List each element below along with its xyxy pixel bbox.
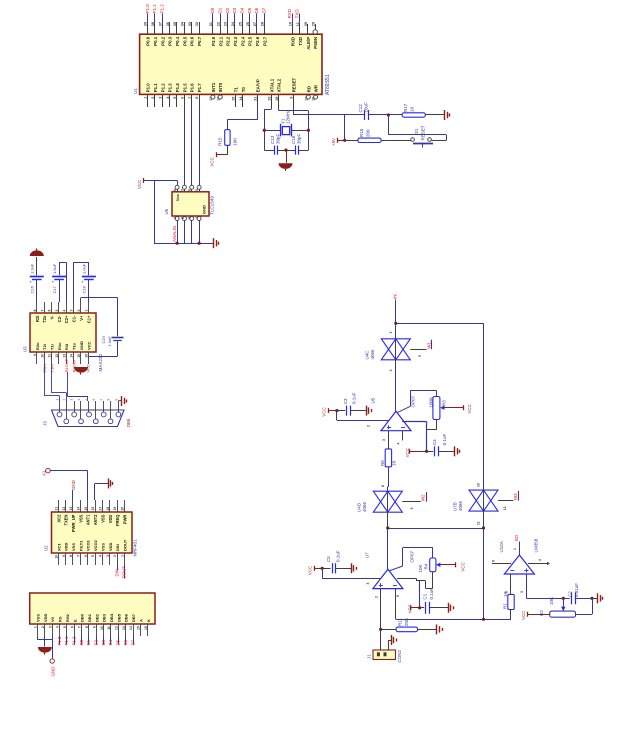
svg-text:P2.0: P2.0 [211,36,216,46]
svg-text:10: 10 [54,555,58,559]
svg-text:INT1: INT1 [211,82,216,92]
svg-text:R4: R4 [424,563,429,569]
svg-text:10uF: 10uF [364,102,369,113]
svg-text:30pF: 30pF [297,133,302,144]
svg-text:1.0uF: 1.0uF [52,263,57,274]
svg-text:6: 6 [92,399,96,401]
svg-text:P1.3: P1.3 [168,83,173,92]
svg-text:P0.2: P0.2 [160,36,165,46]
svg-text:P1.1: P1.1 [64,636,69,645]
svg-text:BO: BO [514,534,519,541]
svg-text:IN: IN [392,294,397,299]
svg-text:12: 12 [114,626,118,630]
svg-text:D3: D3 [101,639,106,645]
svg-text:6: 6 [70,626,74,628]
svg-text:D2: D2 [225,7,230,13]
svg-text:13: 13 [62,354,66,358]
svg-text:29: 29 [311,22,315,26]
svg-text:R11: R11 [398,618,403,626]
svg-text:TXEN: TXEN [64,515,69,526]
svg-text:R2: R2 [539,610,544,616]
svg-text:6: 6 [188,189,192,191]
svg-text:8: 8 [381,485,385,487]
svg-text:10K: 10K [549,597,554,605]
svg-text:K: K [146,619,151,622]
svg-text:4: 4 [397,443,401,445]
svg-text:15: 15 [137,626,141,630]
svg-text:4: 4 [77,399,81,401]
svg-text:RXD: RXD [287,8,292,18]
svg-text:XC2: XC2 [56,514,61,523]
svg-text:VDD: VDD [108,515,113,524]
svg-text:1K: 1K [410,106,415,112]
svg-text:20: 20 [121,507,125,511]
svg-text:VDD: VDD [108,542,113,551]
svg-text:C1: C1 [423,593,428,599]
svg-text:FREQ: FREQ [115,514,120,526]
svg-text:10: 10 [40,354,44,358]
svg-text:VCC: VCC [86,341,91,350]
svg-text:VDD: VDD [43,613,48,622]
svg-text:P1.2: P1.2 [71,636,76,645]
svg-text:VCC: VCC [408,604,413,613]
svg-text:RESET: RESET [421,125,426,140]
svg-text:10K: 10K [232,138,237,146]
svg-text:+: + [52,280,55,285]
svg-text:J3: J3 [43,421,48,426]
svg-text:J1: J1 [367,654,372,659]
svg-text:P1.1: P1.1 [152,4,157,14]
svg-text:E: E [72,619,77,622]
svg-text:D1: D1 [217,7,222,13]
svg-text:TLC1549: TLC1549 [210,196,215,215]
svg-text:ALE/P: ALE/P [306,37,311,50]
svg-text:C12: C12 [358,104,363,113]
svg-text:U6: U6 [164,208,169,214]
svg-text:P2.6: P2.6 [255,36,260,46]
svg-text:D0: D0 [79,639,84,645]
svg-text:T1: T1 [234,87,239,93]
svg-text:VCC: VCC [321,407,326,416]
svg-text:12: 12 [503,506,507,510]
svg-text:DIN: DIN [114,569,119,577]
svg-text:D6: D6 [254,7,259,13]
svg-text:R1: R1 [503,603,508,609]
svg-text:DB7: DB7 [131,613,136,622]
svg-text:3: 3 [389,332,393,334]
svg-text:0.01uF: 0.01uF [574,583,579,597]
svg-text:12MHz: 12MHz [286,109,291,124]
svg-text:DOUT: DOUT [122,539,127,551]
svg-text:DB6: DB6 [124,613,129,622]
svg-text:CON2: CON2 [397,650,402,663]
svg-text:P2.5: P2.5 [248,36,253,46]
svg-text:1: 1 [121,555,125,557]
svg-text:DB2: DB2 [94,613,99,622]
svg-text:VSS: VSS [78,514,83,522]
svg-text:5: 5 [91,555,95,557]
svg-text:VCO1: VCO1 [86,539,91,551]
svg-text:19: 19 [268,97,272,101]
svg-text:OP07: OP07 [411,395,416,407]
svg-text:T2o: T2o [42,315,47,323]
svg-text:U7B: U7B [453,502,458,511]
svg-text:D4: D4 [240,7,245,13]
svg-text:PSEN: PSEN [313,37,318,49]
svg-text:V+: V+ [79,315,84,321]
svg-text:3: 3 [188,217,192,219]
svg-text:S1: S1 [414,128,419,134]
svg-text:4: 4 [195,217,199,219]
svg-text:6: 6 [48,310,52,312]
svg-text:W1: W1 [426,342,431,349]
svg-text:VCC: VCC [467,404,472,413]
svg-text:VCC: VCC [405,448,410,457]
svg-text:P1.5: P1.5 [182,83,187,92]
svg-text:+: + [81,280,84,285]
svg-text:0.1uF: 0.1uF [336,550,341,562]
svg-text:DB1: DB1 [87,613,92,622]
svg-text:D2: D2 [94,639,99,645]
svg-text:RS: RS [58,616,63,622]
svg-text:GND: GND [50,667,55,677]
svg-text:W2: W2 [421,494,426,501]
svg-text:ANT2: ANT2 [93,514,98,525]
svg-text:C17: C17 [52,285,57,293]
svg-text:1: 1 [173,217,177,219]
svg-text:6: 6 [180,97,184,99]
svg-text:5: 5 [85,399,89,401]
svg-text:R16: R16 [359,128,364,137]
svg-text:AT89S51: AT89S51 [325,74,331,95]
svg-text:EA/VP: EA/VP [256,79,261,92]
svg-text:U1: U1 [133,88,138,94]
svg-text:VCC: VCC [210,157,215,166]
svg-text:T1o: T1o [72,342,77,350]
svg-text:8: 8 [195,97,199,99]
svg-text:4066: 4066 [362,501,367,512]
svg-text:1: 1 [84,310,88,312]
svg-text:4066: 4066 [458,500,463,511]
svg-text:RXD: RXD [291,37,296,46]
svg-text:D7: D7 [262,7,267,13]
svg-text:16: 16 [91,507,95,511]
svg-text:1: 1 [513,548,517,550]
svg-text:+5V: +5V [331,138,336,146]
svg-text:8: 8 [173,189,177,191]
svg-text:8: 8 [492,560,496,562]
svg-text:0.1uF: 0.1uF [442,433,447,445]
svg-text:U2: U2 [44,545,49,551]
svg-text:3: 3 [366,583,370,585]
svg-text:GND: GND [71,480,76,490]
svg-text:VCC: VCC [86,364,91,373]
svg-text:Vcc: Vcc [175,193,180,201]
svg-text:28: 28 [260,22,264,26]
svg-text:PWR: PWR [122,515,127,525]
svg-text:VSS: VSS [36,614,41,622]
svg-text:4: 4 [538,559,542,561]
svg-text:TXD: TXD [295,9,300,19]
svg-text:1K: 1K [392,460,397,466]
svg-text:DOUT: DOUT [122,566,127,579]
svg-text:2: 2 [62,399,66,401]
svg-text:P1.0: P1.0 [145,4,150,14]
svg-text:GND: GND [202,205,207,214]
svg-text:VCC: VCC [461,562,466,571]
svg-text:3: 3 [520,591,524,593]
svg-text:10K: 10K [418,564,423,572]
svg-text:RD: RD [306,86,311,92]
svg-text:5: 5 [195,189,199,191]
svg-text:U4D: U4D [357,502,362,512]
svg-text:C13: C13 [270,135,275,144]
svg-text:C1-: C1- [72,315,77,322]
svg-text:+: + [29,280,32,285]
svg-text:R1i: R1i [64,344,69,350]
svg-text:R2i: R2i [35,316,40,322]
svg-text:P2.4: P2.4 [240,36,245,46]
svg-text:C18: C18 [82,285,87,293]
svg-text:4066: 4066 [370,349,375,360]
svg-text:T1i: T1i [50,344,55,350]
svg-text:LM358: LM358 [534,538,539,552]
svg-text:R17: R17 [403,103,408,112]
svg-text:3: 3 [382,439,386,441]
svg-text:VCC: VCC [307,566,312,575]
svg-text:6: 6 [396,595,400,597]
svg-text:11: 11 [48,354,52,358]
svg-text:8: 8 [107,399,111,401]
svg-text:D5: D5 [247,7,252,13]
svg-text:9: 9 [92,626,96,628]
svg-text:5: 5 [418,355,422,357]
svg-text:3: 3 [158,97,162,99]
svg-text:D0: D0 [210,7,215,13]
svg-text:P1.4: P1.4 [175,83,180,92]
svg-text:2: 2 [180,217,184,219]
svg-text:W3: W3 [513,493,518,500]
svg-text:10: 10 [477,483,481,487]
svg-text:C2+: C2+ [64,315,69,323]
svg-text:OP07: OP07 [410,550,415,562]
svg-text:A: A [138,619,143,622]
svg-text:4: 4 [389,369,393,371]
svg-text:1: 1 [34,626,38,628]
svg-text:17: 17 [99,507,103,511]
svg-text:1.0uF: 1.0uF [82,263,87,274]
svg-text:D5: D5 [116,639,121,645]
svg-text:0.1uF: 0.1uF [352,392,357,404]
svg-text:P0.0: P0.0 [146,36,151,46]
svg-text:C16: C16 [30,285,35,293]
svg-text:V0: V0 [50,616,55,622]
svg-text:37: 37 [158,22,162,26]
svg-text:14: 14 [129,626,133,630]
svg-text:XC1: XC1 [56,542,61,551]
svg-text:P2.2: P2.2 [226,36,231,46]
svg-text:U4C: U4C [365,350,370,360]
svg-text:C3: C3 [343,398,348,404]
svg-text:ANALIN: ANALIN [172,226,177,242]
svg-text:U3: U3 [23,346,28,352]
svg-text:VCC: VCC [521,611,526,620]
svg-text:P1.0: P1.0 [57,636,62,645]
svg-text:7: 7 [76,555,80,557]
svg-text:3: 3 [48,626,52,628]
svg-text:C2-: C2- [57,315,62,322]
svg-text:C19: C19 [101,335,106,343]
svg-text:4: 4 [99,555,103,557]
svg-text:2: 2 [367,425,371,427]
svg-text:DB4: DB4 [109,613,114,622]
svg-text:DB9: DB9 [126,418,131,427]
svg-text:Y1: Y1 [280,118,285,124]
svg-text:R15: R15 [218,137,223,146]
svg-text:P0.5: P0.5 [182,36,187,46]
svg-text:T2i: T2i [42,344,47,350]
svg-text:C1+: C1+ [86,315,91,323]
svg-text:D1: D1 [86,639,91,645]
svg-text:VCC: VCC [137,180,142,189]
svg-text:ANT1: ANT1 [86,514,91,525]
svg-text:0.1uF: 0.1uF [429,588,434,600]
svg-text:DB5: DB5 [116,613,121,622]
svg-text:FILT1: FILT1 [78,540,83,551]
svg-text:25: 25 [238,22,242,26]
svg-text:14: 14 [76,507,80,511]
svg-text:R1OUT: R1OUT [64,358,69,372]
svg-text:WR: WR [314,84,319,92]
svg-text:VDD: VDD [64,542,69,551]
svg-text:4: 4 [62,310,66,312]
svg-text:P2.1: P2.1 [218,36,223,46]
svg-text:7: 7 [180,189,184,191]
svg-text:22: 22 [216,22,220,26]
svg-text:C4: C4 [432,439,437,445]
svg-text:19: 19 [113,507,117,511]
svg-text:30pF: 30pF [276,133,281,144]
svg-text:V-: V- [50,315,55,320]
svg-text:P0.4: P0.4 [175,36,180,46]
svg-text:11: 11 [477,521,481,525]
svg-text:RESET: RESET [291,77,296,92]
svg-text:1.0uF: 1.0uF [30,263,35,274]
svg-text:DB0: DB0 [80,613,85,622]
svg-text:D4: D4 [108,639,113,645]
svg-text:R3: R3 [442,400,447,406]
svg-text:PWR_UP: PWR_UP [71,514,76,532]
svg-text:C16: C16 [291,135,296,144]
svg-text:VSS: VSS [100,543,105,551]
svg-text:T0: T0 [241,87,246,93]
svg-text:100K: 100K [428,397,433,408]
svg-text:NRF401: NRF401 [133,539,138,557]
svg-text:R2o: R2o [35,342,40,350]
svg-text:16: 16 [84,354,88,358]
svg-text:P1.0: P1.0 [146,83,151,92]
svg-text:P2.3: P2.3 [233,36,238,46]
svg-text:9: 9 [410,507,414,509]
svg-text:1K: 1K [503,591,508,597]
svg-text:P0.3: P0.3 [168,36,173,46]
svg-text:9: 9 [290,97,294,99]
svg-text:P1.6: P1.6 [190,83,195,92]
svg-text:P1.2: P1.2 [160,83,165,92]
svg-text:D3: D3 [232,7,237,13]
svg-text:DB3: DB3 [102,613,107,622]
svg-text:2: 2 [113,555,117,557]
svg-text:P1.7: P1.7 [197,83,202,92]
svg-text:U12A: U12A [499,541,504,552]
svg-text:32: 32 [195,22,199,26]
svg-text:A1: A1 [42,470,47,476]
svg-text:C5: C5 [326,556,331,562]
svg-text:7: 7 [100,399,104,401]
svg-text:P0.1: P0.1 [153,36,158,46]
svg-text:P0.6: P0.6 [190,36,195,46]
svg-text:D7: D7 [130,639,135,645]
svg-text:D6: D6 [123,639,128,645]
svg-text:R/W: R/W [65,614,70,622]
svg-text:U5: U5 [371,397,376,403]
svg-text:9: 9 [114,399,118,401]
svg-text:1.0uF: 1.0uF [107,336,112,347]
svg-text:GND: GND [79,341,84,350]
svg-text:DIN: DIN [115,544,120,551]
svg-text:XTAL1: XTAL1 [269,78,274,92]
svg-text:R1o: R1o [57,342,62,350]
svg-text:7: 7 [40,310,44,312]
svg-text:P0.7: P0.7 [197,36,202,46]
svg-text:P1.2: P1.2 [160,4,165,14]
svg-text:VCO2: VCO2 [93,539,98,551]
svg-text:3: 3 [70,399,74,401]
svg-text:VSS: VSS [100,514,105,522]
svg-text:C2: C2 [568,591,573,597]
svg-text:1: 1 [56,399,60,401]
svg-text:XTAL2: XTAL2 [277,78,282,92]
svg-text:TXD: TXD [298,37,303,46]
svg-text:P2.7: P2.7 [262,36,267,46]
svg-text:U7: U7 [365,552,370,558]
svg-text:INT0: INT0 [218,82,223,92]
svg-text:200: 200 [365,129,370,137]
svg-text:R6: R6 [380,460,385,466]
svg-text:11: 11 [54,507,58,511]
svg-text:T1IN: T1IN [50,364,55,373]
svg-text:P1.1: P1.1 [153,83,158,92]
svg-text:VSS: VSS [71,543,76,551]
svg-text:2: 2 [374,596,378,598]
